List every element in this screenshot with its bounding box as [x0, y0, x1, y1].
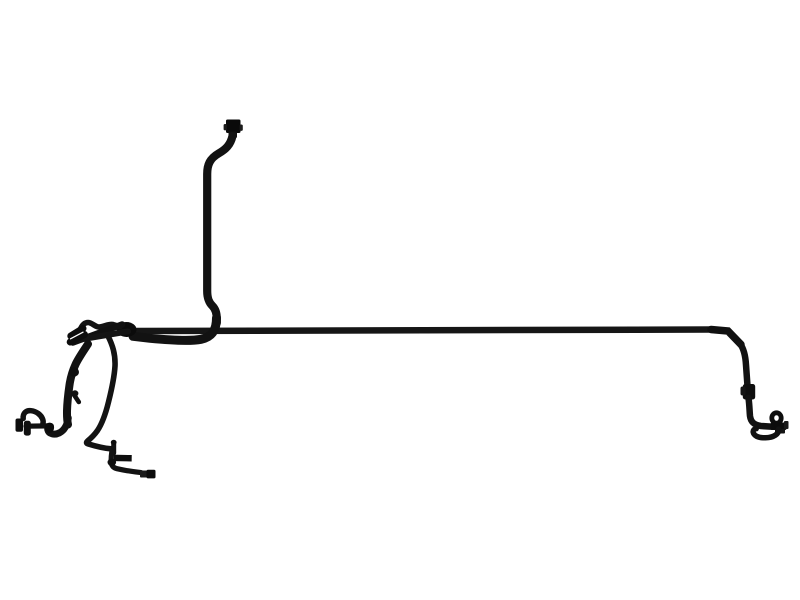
clip bulge on lower thin tube — [108, 459, 117, 467]
bottom end connector — [140, 471, 149, 478]
hose curl into left connector tangle — [48, 418, 69, 434]
white slit between stub ends — [71, 332, 84, 339]
left tangle loop — [23, 411, 43, 424]
elbow fitting horizontal stub — [117, 455, 129, 462]
right fitting block — [771, 423, 787, 431]
main fuel line (long horizontal tube) — [135, 330, 712, 332]
sleeve side tab — [741, 387, 746, 396]
cluster stub end upper — [71, 329, 83, 337]
clamp ring on tangle bar — [45, 423, 54, 433]
clip bulge on descending hose — [69, 367, 79, 376]
lower right tube to elbow — [749, 398, 774, 427]
left descending hose — [67, 344, 88, 425]
cluster upper zigzag tube — [80, 323, 120, 331]
right bend knuckle — [711, 330, 741, 345]
left end block connector B — [24, 421, 31, 436]
top connector left ear — [224, 124, 227, 130]
top connector right ear — [240, 125, 243, 131]
hook tube under right fitting — [753, 429, 778, 438]
C-ring clamp at right fitting — [772, 413, 781, 423]
vapor tube (vertical S tube) — [207, 136, 232, 323]
clip stub on descending hose — [74, 394, 79, 402]
top connector neck — [229, 132, 238, 139]
sleeve clamp on right drop — [743, 384, 755, 400]
elbow fitting vertical pin — [111, 443, 116, 453]
cluster diagonal tube lower — [80, 332, 128, 340]
pin cap — [111, 440, 117, 445]
top connector (square coupler) — [226, 120, 241, 134]
right vertical drop tube — [740, 344, 748, 387]
cluster diagonal tube upper — [73, 325, 122, 343]
thin tube descending from cluster — [87, 336, 115, 449]
left tangle horizontal bar — [26, 423, 48, 429]
lower thin tube continues to end connector — [111, 452, 141, 473]
left end block connector A — [16, 419, 24, 432]
cluster stub end lower — [70, 335, 84, 343]
left cluster knot wrap — [117, 322, 137, 337]
return hose U-turn back to left cluster — [133, 318, 217, 340]
